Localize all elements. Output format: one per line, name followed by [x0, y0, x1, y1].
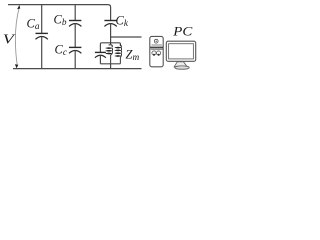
inductor L1 (Zm middle branch) top half-loop	[109, 43, 113, 47]
wire L2 to bottom bracket	[119, 56, 122, 64]
capacitor Cb curved plate	[69, 24, 81, 27]
instrument slot bar	[150, 47, 163, 49]
capacitor Ca branch wire bottom	[41, 36, 43, 68]
svg-text:Cc: Cc	[55, 42, 68, 58]
wire bottom horizontal	[13, 68, 142, 70]
wire Ck to Zm network	[110, 24, 112, 43]
PC monitor stand	[174, 62, 187, 67]
node Zm top bracket	[100, 43, 120, 52]
wire between Cb and Cc	[74, 24, 76, 48]
capacitor Cb branch wire top	[74, 5, 76, 21]
capacitor C0 top plate (Zm left branch)	[95, 51, 106, 53]
PC monitor screen	[169, 44, 194, 59]
wire Zm to bottom wire	[110, 64, 112, 69]
instrument slot line	[152, 44, 163, 46]
capacitor Cc top plate	[69, 46, 81, 48]
capacitor Ck top plate	[104, 20, 116, 22]
inductor L1 right cusps	[111, 48, 113, 53]
node Zm bottom bracket	[100, 63, 120, 65]
PC monitor outer frame	[166, 41, 195, 61]
capacitor Ca curved plate	[36, 37, 48, 40]
node V arrow bottom head	[15, 64, 18, 68]
PC monitor base	[175, 66, 189, 69]
instrument front panel box	[150, 36, 163, 66]
instrument dial knob	[154, 39, 158, 43]
instrument knob left	[152, 51, 156, 55]
capacitor Cb top plate	[69, 20, 81, 22]
wire C0 to bottom bracket	[99, 55, 101, 64]
svg-text:Ck: Ck	[116, 13, 129, 29]
inductor L2 right cusps	[120, 45, 121, 56]
wire L1 to bottom bracket	[111, 54, 113, 64]
capacitor Ck curved plate	[104, 24, 116, 27]
inductor L1 coil loops	[106, 47, 113, 54]
capacitor Cc curved plate	[69, 51, 81, 54]
node V arrow curve	[15, 8, 19, 65]
svg-text:PC: PC	[172, 23, 193, 38]
capacitor C0 curved plate	[95, 55, 106, 58]
svg-text:Zm: Zm	[126, 47, 140, 63]
svg-text:Ca: Ca	[27, 16, 40, 32]
svg-text:Cb: Cb	[54, 12, 67, 28]
capacitor Cc branch wire bottom	[74, 50, 76, 68]
svg-text:V: V	[3, 33, 16, 48]
wire top horizontal with corner into Ck branch	[8, 5, 111, 20]
capacitor Ca branch wire top	[41, 5, 43, 34]
inductor L2 (Zm right branch) coil loops	[115, 47, 121, 57]
wire to instrument (top)	[111, 36, 142, 38]
instrument panel line	[151, 48, 163, 50]
capacitor Ca top plate	[36, 32, 48, 34]
node V arrow top head	[17, 5, 20, 9]
instrument knob right	[157, 51, 161, 55]
